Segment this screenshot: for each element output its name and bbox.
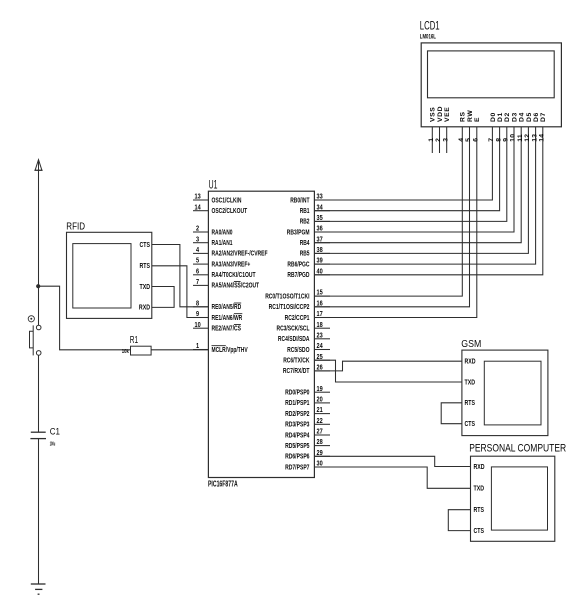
svg-text:OSC2/CLKOUT: OSC2/CLKOUT xyxy=(212,206,248,215)
svg-text:RB0/INT: RB0/INT xyxy=(290,195,310,204)
svg-text:RB3/PGM: RB3/PGM xyxy=(287,227,310,236)
U1 pin 37 RB4 xyxy=(314,242,330,244)
IC U1 PIC16F877A body xyxy=(208,191,314,477)
svg-text:RD3/PSP3: RD3/PSP3 xyxy=(285,420,309,429)
svg-text:OSC1/CLKIN: OSC1/CLKIN xyxy=(212,195,242,204)
RFID inner box xyxy=(73,244,131,308)
svg-text:D6: D6 xyxy=(533,112,540,122)
svg-text:8: 8 xyxy=(495,138,502,142)
U1 pin 38 RB5 xyxy=(314,252,330,254)
wire GSM RTS to CTS loop xyxy=(441,403,462,424)
wire RFID CTS to U1 pin 8 xyxy=(152,245,209,307)
svg-text:D3: D3 xyxy=(511,112,518,122)
svg-text:RD1/PSP1: RD1/PSP1 xyxy=(285,398,309,407)
U1 pin 36 RB3/PGM xyxy=(314,231,330,233)
svg-text:14: 14 xyxy=(539,134,546,142)
svg-text:RD7/PSP7: RD7/PSP7 xyxy=(285,462,309,471)
wire RC2 (pin 17) to LCD E xyxy=(314,127,476,318)
wire RB3 (pin 36) to LCD D3 xyxy=(314,127,514,232)
svg-text:RE0/AN5/RD: RE0/AN5/RD xyxy=(212,302,242,311)
U1 pin 33 RB0/INT xyxy=(314,199,330,201)
svg-text:4: 4 xyxy=(196,247,199,254)
PERSONAL COMPUTER box xyxy=(471,456,555,541)
U1 pin 17 RC2/CCP1 xyxy=(314,317,330,319)
svg-text:RTS: RTS xyxy=(465,400,476,407)
svg-text:RD5/PSP5: RD5/PSP5 xyxy=(285,441,309,450)
svg-text:5: 5 xyxy=(196,258,199,265)
svg-text:CTS: CTS xyxy=(474,528,485,535)
LCD1 LM016L outer box xyxy=(421,43,561,127)
LCD pin 2 VDD xyxy=(439,127,441,153)
svg-text:RC3/SCK/SCL: RC3/SCK/SCL xyxy=(277,324,310,333)
svg-text:RA5/AN4/SS/C2OUT: RA5/AN4/SS/C2OUT xyxy=(212,281,260,290)
U1 pin 1 MCLR/Vpp/THV xyxy=(193,349,208,351)
svg-text:1: 1 xyxy=(196,343,199,350)
svg-text:VEE: VEE xyxy=(444,107,451,122)
U1 pin 34 RB1 xyxy=(314,210,330,212)
U1 pin 39 RB6/PGC xyxy=(314,263,330,265)
U1 pin 15 RC0/T1OSO/T1CKI xyxy=(314,295,330,297)
U1 pin 10 RE2/AN7/CS xyxy=(193,327,208,329)
svg-text:D5: D5 xyxy=(526,112,533,122)
svg-text:2: 2 xyxy=(435,138,442,142)
U1 pin 24 RC5/SDO xyxy=(314,349,330,351)
svg-text:GSM: GSM xyxy=(461,338,481,350)
U1 pin 19 RD0/PSP0 xyxy=(314,391,330,393)
svg-text:RB5: RB5 xyxy=(300,249,310,258)
LCD1 display window xyxy=(428,51,555,98)
U1 pin 40 RB7/PGD xyxy=(314,274,330,276)
svg-text:LCD1: LCD1 xyxy=(420,20,440,32)
U1 pin 18 RC3/SCK/SCL xyxy=(314,327,330,329)
svg-text:20: 20 xyxy=(317,397,323,404)
svg-text:VSS: VSS xyxy=(430,107,437,122)
wire C1 to ground xyxy=(38,439,40,584)
ground xyxy=(31,583,46,585)
wire power rail down to switch xyxy=(38,170,40,325)
svg-text:RC5/SDO: RC5/SDO xyxy=(287,345,310,354)
U1 pin 25 RC6/TX/CK xyxy=(314,359,330,361)
U1 pin 4 RA2/AN2/VREF-/CVREF xyxy=(193,252,208,254)
svg-text:RB7/PGD: RB7/PGD xyxy=(287,270,309,279)
wire RB0 (pin 33) to LCD D0 xyxy=(314,127,492,200)
svg-text:RB4: RB4 xyxy=(300,238,310,247)
svg-text:D1: D1 xyxy=(497,112,504,122)
svg-text:RC6/TX/CK: RC6/TX/CK xyxy=(283,356,310,365)
svg-text:VDD: VDD xyxy=(437,106,444,122)
U1 pin 9 RE1/AN6/WR xyxy=(193,317,208,319)
svg-text:RFID: RFID xyxy=(66,221,85,233)
wire RB4 (pin 37) to LCD D4 xyxy=(314,127,521,243)
svg-text:RXD: RXD xyxy=(474,464,485,471)
svg-text:1: 1 xyxy=(428,138,435,142)
svg-text:RD6/PSP6: RD6/PSP6 xyxy=(285,452,309,461)
U1 pin 29 RD6/PSP6 xyxy=(314,455,330,457)
svg-text:8: 8 xyxy=(196,300,199,307)
U1 pin 30 RD7/PSP7 xyxy=(314,466,330,468)
U1 pin 7 RA5/AN4/SS/C2OUT xyxy=(193,284,208,286)
svg-text:RA2/AN2/VREF-/CVREF: RA2/AN2/VREF-/CVREF xyxy=(212,249,268,258)
svg-text:6: 6 xyxy=(196,268,199,275)
svg-text:RB6/PGC: RB6/PGC xyxy=(287,259,309,268)
svg-text:28: 28 xyxy=(317,439,323,446)
LCD pin 1 VSS xyxy=(431,127,433,153)
svg-text:E: E xyxy=(474,117,481,122)
GSM module box xyxy=(462,350,548,436)
svg-text:RTS: RTS xyxy=(474,507,485,514)
svg-text:7: 7 xyxy=(196,279,199,286)
U1 pin 13 OSC1/CLKIN xyxy=(193,199,208,201)
svg-text:D2: D2 xyxy=(504,112,511,122)
svg-text:RD2/PSP2: RD2/PSP2 xyxy=(285,409,309,418)
svg-text:RB1: RB1 xyxy=(300,206,310,215)
svg-text:5: 5 xyxy=(465,138,472,142)
U1 pin 35 RB2 xyxy=(314,220,330,222)
wire R1 to U1 pin 1 MCLR xyxy=(151,349,208,351)
wire RC1 (pin 16) to LCD RW xyxy=(314,127,469,307)
svg-text:13: 13 xyxy=(195,194,201,201)
svg-text:2: 2 xyxy=(196,226,199,233)
svg-text:24: 24 xyxy=(317,343,323,350)
wire RB2 (pin 35) to LCD D2 xyxy=(314,127,506,222)
svg-text:D4: D4 xyxy=(519,112,526,122)
svg-text:22: 22 xyxy=(317,418,323,425)
svg-text:9: 9 xyxy=(503,138,510,142)
U1 pin 23 RC4/SDI/SDA xyxy=(314,338,330,340)
svg-text:18: 18 xyxy=(317,322,323,329)
svg-text:LM016L: LM016L xyxy=(420,34,436,41)
svg-text:10: 10 xyxy=(195,322,201,329)
wire junction to R1 xyxy=(39,286,131,350)
wire RB6 (pin 39) to LCD D6 xyxy=(314,127,535,264)
svg-text:27: 27 xyxy=(317,429,323,436)
U1 pin 21 RD2/PSP2 xyxy=(314,413,330,415)
svg-text:CTS: CTS xyxy=(140,242,151,249)
svg-text:6: 6 xyxy=(473,138,480,142)
svg-text:RD4/PSP4: RD4/PSP4 xyxy=(285,430,309,439)
wire U1 pin 29 RD6 to PC RXD xyxy=(314,456,470,466)
svg-text:CTS: CTS xyxy=(465,421,476,428)
svg-text:RE2/AN7/CS: RE2/AN7/CS xyxy=(212,324,242,333)
svg-text:RXD: RXD xyxy=(465,359,476,366)
U1 pin 6 RA4/T0CKI/C1OUT xyxy=(193,274,208,276)
svg-text:RC7/RX/DT: RC7/RX/DT xyxy=(283,366,310,375)
wire RFID RTS to U1 pin 9 xyxy=(152,266,209,318)
svg-text:14: 14 xyxy=(195,204,201,211)
svg-text:11: 11 xyxy=(517,134,524,142)
svg-text:RW: RW xyxy=(467,110,474,122)
svg-text:RC1/T1OSI/CCP2: RC1/T1OSI/CCP2 xyxy=(269,302,310,311)
U1 pin 28 RD5/PSP5 xyxy=(314,445,330,447)
wire U1 pin 26 RC7/RX to GSM RXD xyxy=(314,361,462,371)
svg-text:TXD: TXD xyxy=(465,379,476,386)
svg-text:D7: D7 xyxy=(540,112,547,122)
svg-text:10: 10 xyxy=(510,134,517,142)
svg-text:19: 19 xyxy=(317,386,323,393)
svg-text:3: 3 xyxy=(442,138,449,142)
wire RB7 (pin 40) to LCD D7 xyxy=(314,127,542,275)
svg-text:D0: D0 xyxy=(490,112,497,122)
svg-text:RXD: RXD xyxy=(139,305,150,312)
wire RFID TXD to RXD loopback xyxy=(152,287,174,308)
pushbutton switch SW xyxy=(36,325,41,330)
wire switch to C1 xyxy=(38,355,40,432)
wire U1 pin 25 RC6/TX to GSM TXD xyxy=(314,360,462,382)
svg-text:TXD: TXD xyxy=(140,284,151,291)
wire RC0 (pin 15) to LCD RS xyxy=(314,127,462,296)
svg-text:13: 13 xyxy=(531,134,538,142)
U1 pin 27 RD4/PSP4 xyxy=(314,434,330,436)
svg-text:RC2/CCP1: RC2/CCP1 xyxy=(285,313,310,322)
svg-text:23: 23 xyxy=(317,332,323,339)
svg-text:TXD: TXD xyxy=(474,486,485,493)
svg-text:RS: RS xyxy=(460,111,467,122)
svg-text:U1: U1 xyxy=(209,180,218,192)
U1 pin 20 RD1/PSP1 xyxy=(314,402,330,404)
wire U1 pin 30 RD7 to PC TXD xyxy=(314,467,470,488)
svg-text:R1: R1 xyxy=(130,335,139,346)
svg-text:MCLR/Vpp/THV: MCLR/Vpp/THV xyxy=(212,345,248,354)
GSM inner box xyxy=(484,361,541,425)
resistor R1 xyxy=(131,346,152,355)
wire PC RTS to CTS loop xyxy=(448,510,470,531)
U1 pin 22 RD3/PSP3 xyxy=(314,423,330,425)
svg-text:3: 3 xyxy=(196,236,199,243)
U1 pin 8 RE0/AN5/RD xyxy=(193,306,208,308)
svg-text:RA1/AN1: RA1/AN1 xyxy=(212,238,233,247)
svg-text:RC4/SDI/SDA: RC4/SDI/SDA xyxy=(278,334,310,343)
svg-text:21: 21 xyxy=(317,407,323,414)
svg-text:RA0/AN0: RA0/AN0 xyxy=(212,227,233,236)
svg-text:RTS: RTS xyxy=(140,263,151,270)
svg-text:4: 4 xyxy=(458,138,465,142)
svg-text:10k: 10k xyxy=(122,349,129,355)
power symbol (up arrow) VCC xyxy=(35,160,42,171)
svg-text:RC0/T1OSO/T1CKI: RC0/T1OSO/T1CKI xyxy=(265,291,309,300)
svg-text:7: 7 xyxy=(488,138,495,142)
svg-text:RE1/AN6/WR: RE1/AN6/WR xyxy=(212,313,243,322)
svg-text:RA4/T0CKI/C1OUT: RA4/T0CKI/C1OUT xyxy=(212,270,256,279)
U1 pin 3 RA1/AN1 xyxy=(193,242,208,244)
capacitor C1 xyxy=(31,431,46,433)
svg-text:RA3/AN3/VREF+: RA3/AN3/VREF+ xyxy=(212,259,251,268)
svg-text:100u: 100u xyxy=(50,441,56,447)
U1 pin 14 OSC2/CLKOUT xyxy=(193,210,208,212)
U1 pin 5 RA3/AN3/VREF+ xyxy=(193,263,208,265)
svg-text:9: 9 xyxy=(196,311,199,318)
wire RB5 (pin 38) to LCD D5 xyxy=(314,127,528,254)
U1 pin 16 RC1/T1OSI/CCP2 xyxy=(314,306,330,308)
U1 pin 26 RC7/RX/DT xyxy=(314,370,330,372)
svg-text:PERSONAL COMPUTER: PERSONAL COMPUTER xyxy=(469,443,566,455)
U1 pin 2 RA0/AN0 xyxy=(193,231,208,233)
PC inner box xyxy=(491,467,547,530)
svg-text:C1: C1 xyxy=(50,426,60,437)
RFID module box xyxy=(67,232,152,318)
svg-text:RD0/PSP0: RD0/PSP0 xyxy=(285,388,309,397)
node junction on rail xyxy=(36,284,40,288)
LCD pin 3 VEE xyxy=(446,127,448,153)
wire RB1 (pin 34) to LCD D1 xyxy=(314,127,499,211)
svg-text:12: 12 xyxy=(524,134,531,142)
svg-text:RB2: RB2 xyxy=(300,217,310,226)
svg-text:PIC16F877A: PIC16F877A xyxy=(208,479,238,488)
